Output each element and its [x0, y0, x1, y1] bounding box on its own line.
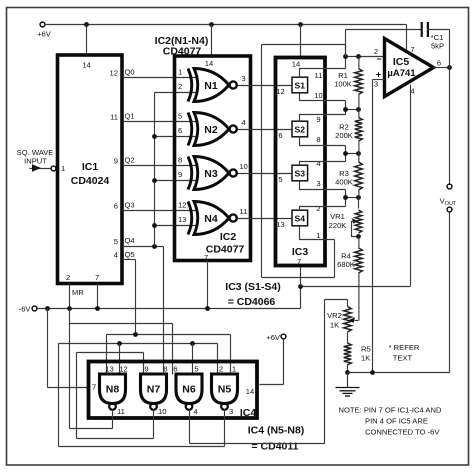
svg-text:5: 5 — [114, 237, 118, 246]
wire N7 output loop — [77, 410, 154, 439]
svg-text:3: 3 — [316, 179, 320, 188]
svg-text:INPUT: INPUT — [24, 157, 47, 166]
svg-text:S2: S2 — [295, 125, 306, 135]
svg-text:Q0: Q0 — [125, 68, 135, 77]
ground — [336, 373, 360, 397]
svg-text:13: 13 — [105, 365, 113, 374]
svg-text:13: 13 — [276, 220, 284, 229]
trimmer VR1 220K — [329, 198, 362, 237]
svg-text:10: 10 — [158, 407, 166, 416]
svg-text:6: 6 — [114, 202, 118, 211]
svg-text:11: 11 — [240, 207, 248, 216]
svg-text:5: 5 — [278, 175, 282, 184]
svg-text:11: 11 — [117, 407, 125, 416]
wire S2 pin9 riser to node1 — [345, 110, 347, 115]
svg-text:12: 12 — [119, 365, 127, 374]
wire N4 pin11 output to IC3 switch control — [238, 219, 293, 230]
svg-text:5kP: 5kP — [431, 42, 444, 51]
svg-text:220K: 220K — [329, 221, 347, 230]
wire +6V rail — [45, 24, 407, 26]
svg-text:3: 3 — [241, 74, 245, 83]
wire Q4 drop to N7 pin8 — [163, 361, 165, 375]
switch S1 — [292, 71, 323, 100]
wire IC5 pin3 input riser to bias node — [373, 80, 385, 373]
wire IC5 output pin6 — [434, 65, 452, 70]
input SQ. WAVE INPUT — [17, 148, 56, 172]
NAND gate N8 — [100, 374, 126, 410]
svg-text:9: 9 — [114, 157, 118, 166]
svg-text:S3: S3 — [295, 169, 306, 179]
wire S2 bottom pin 8 — [300, 137, 346, 146]
svg-text:200K: 200K — [335, 131, 353, 140]
svg-text:IC3 (S1-S4): IC3 (S1-S4) — [225, 281, 280, 293]
svg-text:9: 9 — [144, 365, 148, 374]
node 2 (R2/R3 junction) — [343, 151, 361, 156]
wire S4 top pin 2 — [300, 207, 346, 211]
trimmer VR2 1K — [327, 300, 358, 344]
svg-text:12: 12 — [276, 87, 284, 96]
svg-text:N5: N5 — [218, 384, 232, 396]
svg-text:µA741: µA741 — [387, 68, 416, 79]
wire N8 output loop — [70, 410, 113, 429]
wire IC3 pin7 to -6V junction — [300, 268, 302, 287]
svg-text:4: 4 — [241, 118, 245, 127]
svg-text:N3: N3 — [204, 168, 218, 180]
XNOR gate N2 — [178, 112, 246, 146]
svg-text:7: 7 — [95, 273, 99, 282]
note REFER TEXT — [389, 343, 420, 363]
node 3 (R3/VR1 junction) — [343, 195, 361, 200]
junction rail IC1 pin14 — [82, 22, 90, 69]
svg-text:400K: 400K — [335, 178, 353, 187]
svg-text:= CD4011: = CD4011 — [252, 441, 299, 453]
resistor R5 1K — [344, 343, 371, 373]
svg-text:MR: MR — [72, 288, 84, 297]
node R5 bottom / ground — [345, 370, 375, 375]
wire S3 bottom pin 3 — [300, 181, 346, 190]
wire S3 pin4 riser to node2 — [345, 154, 347, 162]
svg-text:CONNECTED TO -6V: CONNECTED TO -6V — [365, 428, 440, 437]
svg-text:1: 1 — [178, 68, 182, 77]
svg-text:14: 14 — [82, 61, 90, 70]
svg-text:680K: 680K — [337, 260, 355, 269]
wire N3 pin10 output to IC3 switch control — [238, 174, 293, 185]
IC4 output pin labels — [117, 407, 233, 416]
svg-text:12: 12 — [110, 69, 118, 78]
svg-text:8: 8 — [163, 365, 167, 374]
wire S4 bottom pin 1 — [300, 226, 335, 240]
capacitor C1 5kP — [346, 22, 450, 68]
IC1 pin labels — [61, 69, 118, 283]
wire N6 output to VR2 top — [190, 300, 348, 444]
svg-text:14: 14 — [205, 59, 213, 68]
svg-text:4: 4 — [194, 407, 198, 416]
svg-text:6: 6 — [437, 59, 441, 68]
junction rail IC2 pin14 — [205, 22, 214, 68]
svg-text:6: 6 — [178, 126, 182, 135]
junction rail IC3 pin14 — [292, 22, 303, 68]
wire S1 pin10 riser to node1 — [345, 101, 347, 110]
wire XNOR common inputs (pins 2,6,9,13) to Q4 — [152, 93, 197, 247]
wire Q4 IC1 pin5 to XNOR common and IC4 N7 pin8 — [123, 236, 164, 361]
svg-text:10: 10 — [314, 91, 322, 100]
svg-text:IC4: IC4 — [240, 407, 257, 419]
svg-text:5: 5 — [178, 112, 182, 121]
svg-text:100K: 100K — [334, 80, 352, 89]
svg-text:R5: R5 — [361, 345, 371, 354]
wire IC1 pin2 drop — [67, 284, 72, 311]
svg-text:1: 1 — [316, 231, 320, 240]
svg-text:IC2: IC2 — [220, 231, 237, 243]
quad XNOR IC2 CD4077 — [155, 35, 251, 262]
svg-text:IC1: IC1 — [82, 161, 99, 173]
svg-text:* REFER: * REFER — [389, 343, 420, 352]
svg-text:IC5: IC5 — [393, 56, 410, 68]
NAND gate N6 — [176, 374, 202, 410]
wire S2 pin8 riser to node2 — [345, 146, 347, 154]
wire N2 pin4 output to IC3 switch control — [238, 130, 293, 141]
svg-text:CD4077: CD4077 — [206, 244, 245, 256]
svg-text:1K: 1K — [361, 354, 370, 363]
svg-text:10: 10 — [239, 162, 247, 171]
NAND gate N7 — [141, 374, 167, 410]
svg-text:+6V: +6V — [37, 30, 52, 39]
IC4 input pin labels — [105, 365, 236, 374]
wire S4 pin2 riser to node3 — [345, 198, 347, 207]
svg-text:7: 7 — [297, 257, 301, 266]
svg-text:N4: N4 — [204, 213, 218, 225]
svg-text:VR1: VR1 — [330, 212, 345, 221]
svg-text:S4: S4 — [295, 214, 306, 224]
svg-text:S1: S1 — [295, 81, 306, 91]
svg-text:VR2: VR2 — [327, 311, 342, 320]
svg-text:6: 6 — [173, 365, 177, 374]
terminal -6V supply — [19, 305, 37, 314]
svg-text:6: 6 — [278, 131, 282, 140]
svg-text:Q3: Q3 — [125, 201, 135, 210]
svg-text:PIN 4 OF IC5 ARE: PIN 4 OF IC5 ARE — [365, 417, 428, 426]
wire row D (N7 loop to pin 9) — [77, 353, 144, 439]
node VR1 bottom / R4 top — [356, 234, 361, 239]
wire S1 top pin 11 — [300, 69, 346, 78]
svg-text:9: 9 — [178, 170, 182, 179]
svg-text:N6: N6 — [182, 384, 196, 396]
wire S1 bottom pin 10 — [300, 93, 346, 101]
svg-text:4: 4 — [316, 159, 320, 168]
svg-text:Q5: Q5 — [125, 250, 135, 259]
svg-text:N8: N8 — [106, 384, 120, 396]
svg-text:N7: N7 — [147, 384, 161, 396]
svg-text:+: + — [376, 70, 381, 80]
IC4 (N5-N8) = CD4011 label — [248, 425, 305, 453]
svg-text:NOTE: PIN 7 OF IC1-IC4 AND: NOTE: PIN 7 OF IC1-IC4 AND — [339, 406, 442, 415]
wire N1 pin3 output to IC3 switch control — [238, 86, 293, 97]
wire IC1 pin7 drop — [95, 284, 100, 311]
note pins supply — [339, 406, 442, 437]
wire Q0 IC1 pin12 to N1 pin1 — [123, 68, 198, 78]
svg-text:3: 3 — [374, 80, 378, 89]
svg-text:Q1: Q1 — [125, 112, 135, 121]
svg-text:13: 13 — [178, 215, 186, 224]
svg-text:IC4 (N5-N8): IC4 (N5-N8) — [248, 425, 305, 437]
svg-text:N1: N1 — [204, 80, 218, 92]
svg-text:14: 14 — [246, 387, 254, 396]
NAND gate N5 — [212, 374, 238, 410]
svg-text:= CD4066: = CD4066 — [228, 296, 276, 308]
switch S3 — [292, 159, 321, 188]
wire S2 top pin 9 — [300, 115, 346, 122]
wire Q1 IC1 pin11 to N2 pin5 — [123, 112, 198, 122]
svg-text:1: 1 — [61, 164, 65, 173]
XNOR gate N4 — [178, 201, 247, 235]
svg-text:12: 12 — [178, 201, 186, 210]
svg-text:8: 8 — [178, 156, 182, 165]
svg-text:5: 5 — [194, 365, 198, 374]
svg-text:2: 2 — [316, 204, 320, 213]
svg-text:4: 4 — [114, 251, 118, 260]
resistor R1 100K — [334, 56, 362, 109]
resistor R2 200K — [335, 109, 362, 153]
wire N5 output loop — [59, 410, 225, 447]
junction IC2 pin7 on rail — [205, 306, 210, 311]
wire -6V rail — [37, 284, 303, 308]
wire S3 top pin 4 — [300, 162, 346, 166]
svg-text:+6V: +6V — [266, 333, 281, 342]
svg-text:11: 11 — [110, 113, 118, 122]
wire rail to IC5 pin7 — [407, 25, 415, 55]
wire IC2 pin7 to -6V rail — [207, 261, 209, 309]
wire S1 pin11 riser to summing node — [345, 57, 347, 69]
svg-text:11: 11 — [315, 71, 323, 80]
svg-text:8: 8 — [316, 135, 320, 144]
svg-text:7: 7 — [92, 383, 96, 392]
resistor R4 680K — [337, 237, 362, 321]
switch S2 — [292, 115, 321, 144]
terminal +6V supply — [37, 22, 52, 38]
counter IC1 CD4024 — [58, 55, 123, 284]
wire Q3 IC1 pin6 to N4 pin12 — [123, 201, 198, 211]
svg-text:Q4: Q4 — [125, 236, 135, 245]
svg-text:TEXT: TEXT — [393, 354, 413, 363]
wire summing node loop to S4 pin1 — [262, 45, 346, 278]
wire row B (Q5 to N8 pin13 and N5 pin1) — [107, 332, 231, 374]
svg-text:CD4024: CD4024 — [71, 175, 110, 187]
svg-text:1: 1 — [232, 365, 236, 374]
svg-text:CD4077: CD4077 — [163, 46, 202, 58]
XNOR gate N1 — [178, 68, 246, 102]
svg-text:3: 3 — [229, 407, 233, 416]
IC3 (S1-S4) = CD4066 label — [225, 281, 280, 308]
svg-text:9: 9 — [316, 115, 320, 124]
resistor R3 400K — [335, 153, 362, 198]
quad switch IC3 CD4066 — [276, 58, 326, 267]
wire row C (N5 loop to pins 12,5,2) — [59, 341, 218, 446]
wire Q2 IC1 pin9 to N3 pin8 — [123, 156, 198, 166]
svg-text:−: − — [376, 54, 381, 64]
op-amp IC5 uA741 — [374, 39, 441, 97]
svg-text:14: 14 — [292, 60, 300, 69]
node summing junction line (IC5 pin2) — [343, 54, 383, 59]
wire row A (-6V to N6 pin6) — [70, 309, 173, 429]
terminal +6V for IC4 pin14 — [260, 333, 286, 385]
svg-text:1K: 1K — [330, 321, 339, 330]
svg-text:N2: N2 — [204, 124, 218, 136]
svg-text:2: 2 — [178, 82, 182, 91]
switch S4 — [292, 204, 321, 240]
wire IC5 pin4 to -6V — [301, 85, 411, 287]
svg-text:-6V: -6V — [19, 305, 32, 314]
quad NAND IC4 CD4011 — [89, 362, 258, 420]
terminal VOUT — [373, 68, 457, 373]
IC1 MR label — [72, 288, 84, 297]
XNOR gate N3 — [178, 156, 248, 190]
node 1 (R1/R2 junction) — [343, 107, 361, 112]
wire Q5 IC1 pin4 to IC4 row — [123, 250, 136, 335]
svg-text:Q2: Q2 — [125, 156, 135, 165]
wire -6V to IC4 pin7 — [45, 306, 88, 387]
svg-text:2: 2 — [66, 273, 70, 282]
svg-text:2: 2 — [219, 365, 223, 374]
wire S3 pin3 riser to node3 — [345, 190, 347, 198]
